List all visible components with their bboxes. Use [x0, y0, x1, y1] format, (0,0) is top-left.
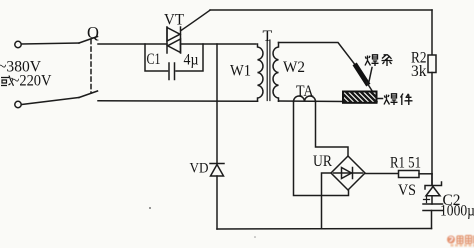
svg-text:Q: Q — [87, 23, 99, 42]
triac VT right bar — [180, 27, 182, 53]
件 — [401, 94, 413, 106]
capacitor C2 top plate — [423, 203, 443, 205]
switch Q bottom blade — [79, 91, 98, 98]
svg-text:VT: VT — [164, 12, 184, 29]
svg-text:VD: VD — [190, 161, 209, 177]
wire TA left lead — [294, 102, 349, 196]
triac VT left bar — [166, 27, 168, 53]
diode VD triangle — [211, 165, 224, 177]
transformer T winding W2 — [273, 43, 278, 102]
resistor R1 body — [399, 171, 420, 178]
svg-text:TA: TA — [296, 83, 314, 100]
svg-text:~220V: ~220V — [12, 73, 52, 90]
workpiece 焊件 hatched block — [332, 88, 385, 106]
watermark logo circle — [447, 236, 474, 247]
wire VD branch upper — [216, 44, 218, 163]
svg-text:4µ: 4µ — [184, 52, 199, 69]
scan speck — [149, 207, 151, 209]
capacitor C2 bottom plate — [423, 210, 443, 212]
current transformer TA winding — [294, 96, 316, 102]
svg-text:1000µ: 1000µ — [440, 203, 474, 220]
rectifier UR bridge diamond — [331, 156, 365, 190]
transformer T winding W1 — [258, 44, 263, 101]
wire TA right lead — [316, 102, 349, 157]
wire bridge right corner to R1 — [365, 173, 399, 175]
switch Q link dashed — [90, 40, 92, 94]
条 — [382, 55, 393, 67]
焊 — [384, 95, 390, 105]
wire VS node to zener — [431, 174, 433, 186]
wire VD branch lower — [216, 176, 218, 229]
svg-text:R1 51: R1 51 — [390, 155, 421, 172]
wire R2 to R1 node — [431, 73, 433, 186]
wire C2 to bottom rail — [431, 211, 433, 229]
capacitor C1 right plate — [174, 63, 176, 80]
wire zener to C2 — [431, 196, 433, 204]
C1 branch left wire — [145, 44, 168, 71]
zener diode VS bar — [425, 182, 442, 189]
diode VD cathode bar — [210, 163, 224, 165]
wire bottom after switch to W1 bottom — [98, 100, 258, 103]
wire W2 top to electrode — [279, 43, 357, 67]
wire R1 to VS node — [419, 173, 432, 175]
wire bottom input to switch — [22, 98, 80, 105]
pointer tick to workpiece label — [377, 98, 383, 100]
wire W2 bottom / welding loop — [279, 100, 378, 103]
wire bottom rail — [217, 228, 432, 231]
wire top input to switch — [22, 43, 80, 44]
wire triac to transformer W1 — [181, 43, 257, 45]
terminal top input — [15, 41, 21, 47]
capacitor C2 plus sign — [424, 197, 430, 203]
zener diode VS triangle — [426, 187, 440, 196]
triac VT lower triangle — [168, 39, 181, 53]
capacitor C1 left plate — [168, 63, 170, 80]
焊 — [365, 56, 371, 66]
watermark subtext — [451, 244, 474, 247]
hanzi label 焊件 workpiece — [384, 94, 413, 106]
svg-text:W1: W1 — [230, 63, 251, 80]
terminal bottom input — [15, 101, 21, 107]
resistor R2 body — [428, 55, 436, 73]
pointer line to electrode label — [369, 68, 372, 82]
hanzi label 焊条 electrode — [365, 55, 393, 67]
hanzi 或 (of 或~220V) — [1, 76, 14, 86]
svg-text:W2: W2 — [283, 59, 305, 76]
svg-text:UR: UR — [313, 153, 332, 170]
svg-text:C1: C1 — [147, 51, 161, 68]
switch Q top blade — [79, 37, 98, 44]
C1 branch right wire — [176, 44, 203, 71]
svg-text:VS: VS — [398, 182, 416, 199]
electrode tip wire — [367, 82, 373, 92]
wire bridge left corner down to rail — [322, 173, 332, 229]
watermark text — [457, 236, 474, 244]
wire right drop to R2 — [431, 10, 433, 55]
wire top rail after switch — [98, 43, 167, 45]
triac VT upper triangle — [167, 28, 180, 42]
rectifier UR inner diode — [334, 172, 363, 174]
svg-text:T: T — [263, 28, 273, 45]
electrode holder lead 焊条 rod — [356, 66, 367, 83]
svg-text:3k: 3k — [411, 63, 427, 80]
triac VT gate lead — [181, 10, 210, 30]
transformer T core — [266, 40, 268, 101]
wire top gate rail — [210, 9, 432, 11]
